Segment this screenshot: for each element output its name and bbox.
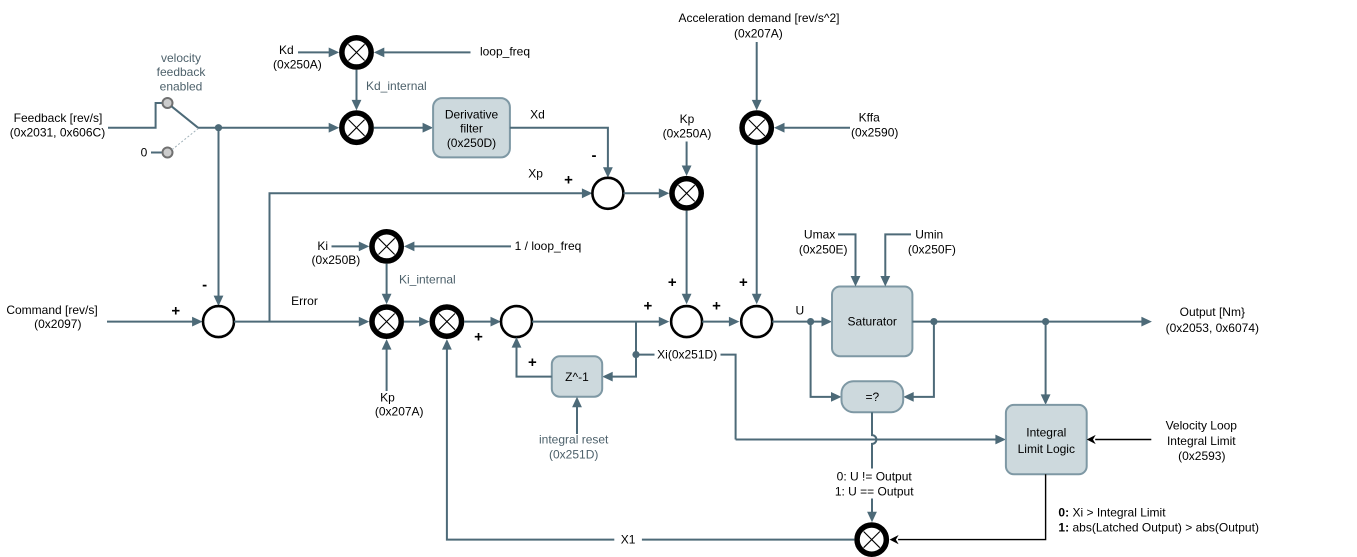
svg-text:U: U — [795, 304, 804, 318]
svg-text:(0x2593): (0x2593) — [1178, 449, 1225, 463]
svg-text:Ki_internal: Ki_internal — [399, 272, 456, 286]
svg-text:Kd_internal: Kd_internal — [366, 79, 427, 93]
svg-text:-: - — [592, 147, 597, 164]
svg-text:+: + — [644, 298, 653, 315]
svg-text:1: U == Output: 1: U == Output — [835, 485, 914, 499]
svg-text:(0x250D): (0x250D) — [447, 136, 496, 150]
svg-text:(0x2590): (0x2590) — [851, 125, 898, 139]
svg-text:Limit Logic: Limit Logic — [1018, 442, 1075, 456]
svg-text:+: + — [668, 274, 677, 291]
svg-text:Acceleration demand [rev/s^2]: Acceleration demand [rev/s^2] — [678, 11, 839, 25]
svg-text:+: + — [739, 274, 748, 291]
svg-text:0:: 0: — [1058, 505, 1069, 519]
svg-text:Saturator: Saturator — [848, 315, 897, 329]
svg-text:(0x2031, 0x606C): (0x2031, 0x606C) — [10, 126, 105, 140]
svg-text:loop_freq: loop_freq — [480, 44, 530, 58]
svg-text:1:: 1: — [1058, 521, 1069, 535]
svg-text:Z^-1: Z^-1 — [565, 370, 589, 384]
svg-text:+: + — [564, 171, 573, 188]
svg-text:+: + — [528, 354, 537, 371]
svg-text:(0x250A): (0x250A) — [663, 126, 712, 140]
svg-text:+: + — [171, 303, 180, 320]
svg-text:Feedback [rev/s]: Feedback [rev/s] — [14, 111, 103, 125]
svg-text:(0x250F): (0x250F) — [908, 243, 956, 257]
svg-text:Command [rev/s]: Command [rev/s] — [6, 303, 97, 317]
svg-text:abs(Latched Output) > abs(Outp: abs(Latched Output) > abs(Output) — [1073, 521, 1259, 535]
svg-text:Xi(0x251D): Xi(0x251D) — [657, 348, 717, 362]
svg-text:0: 0 — [141, 145, 148, 159]
svg-text:X1: X1 — [621, 533, 636, 547]
svg-text:velocity: velocity — [161, 51, 201, 65]
svg-text:=?: =? — [866, 390, 880, 404]
svg-text:Velocity Loop: Velocity Loop — [1166, 419, 1238, 433]
svg-text:Kp: Kp — [380, 390, 395, 404]
svg-text:Output [Nm}: Output [Nm} — [1180, 305, 1245, 319]
svg-text:Integral: Integral — [1026, 426, 1066, 440]
svg-text:Integral Limit: Integral Limit — [1167, 434, 1236, 448]
svg-text:Kd: Kd — [279, 43, 294, 57]
svg-text:1 / loop_freq: 1 / loop_freq — [515, 239, 582, 253]
svg-text:0: U != Output: 0: U != Output — [837, 469, 913, 483]
svg-text:-: - — [202, 277, 207, 294]
svg-text:integral reset: integral reset — [539, 433, 609, 447]
svg-text:enabled: enabled — [160, 80, 203, 94]
svg-text:filter: filter — [460, 122, 483, 136]
svg-text:(0x2097): (0x2097) — [34, 317, 81, 331]
svg-text:Ki: Ki — [317, 239, 328, 253]
svg-text:Xi > Integral Limit: Xi > Integral Limit — [1073, 505, 1167, 519]
svg-text:Umin: Umin — [915, 228, 943, 242]
svg-text:+: + — [474, 328, 483, 345]
svg-text:+: + — [712, 298, 721, 315]
svg-text:Kp: Kp — [680, 112, 695, 126]
svg-text:(0x251D): (0x251D) — [549, 447, 598, 461]
svg-text:(0x207A): (0x207A) — [734, 27, 783, 41]
svg-text:(0x250E): (0x250E) — [799, 243, 848, 257]
svg-text:(0x250A): (0x250A) — [273, 58, 322, 72]
svg-text:Umax: Umax — [804, 228, 835, 242]
svg-text:(0x2053, 0x6074): (0x2053, 0x6074) — [1166, 321, 1259, 335]
svg-text:Error: Error — [291, 294, 318, 308]
svg-text:Xp: Xp — [528, 167, 543, 181]
svg-text:Xd: Xd — [530, 108, 545, 122]
svg-text:Derivative: Derivative — [445, 108, 499, 122]
svg-text:feedback: feedback — [157, 65, 207, 79]
svg-text:Kffa: Kffa — [859, 110, 880, 124]
svg-text:(0x207A): (0x207A) — [375, 404, 424, 418]
svg-text:(0x250B): (0x250B) — [312, 253, 361, 267]
